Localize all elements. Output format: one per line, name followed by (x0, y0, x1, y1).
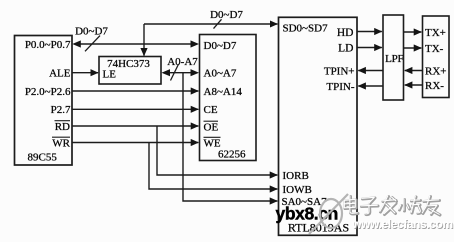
svg-text:TPIN+: TPIN+ (324, 66, 355, 78)
wire LPF to TX+ (404, 31, 421, 33)
ethernet controller U3 RTL8019AS (279, 17, 358, 235)
MCU 89C55 (15, 36, 73, 166)
bus slash on P0 data bus (85, 36, 100, 52)
svg-text:A0~A7: A0~A7 (204, 68, 237, 80)
wire RD branch to IORB (157, 126, 277, 175)
svg-text:RD: RD (55, 121, 70, 133)
svg-text:LD: LD (338, 43, 353, 55)
wire LD to LPF (357, 47, 382, 49)
svg-text:D0~D7: D0~D7 (204, 40, 237, 52)
svg-text:D0~D7: D0~D7 (210, 9, 243, 21)
wire P2.7 to CE (72, 108, 198, 110)
svg-text:LE: LE (103, 69, 117, 81)
wire WR to WE (72, 142, 198, 144)
wire WR branch to IOWB (149, 143, 277, 190)
filter LPF (383, 15, 404, 100)
svg-text:89C55: 89C55 (28, 152, 58, 164)
svg-text:IORB: IORB (283, 170, 309, 182)
wire RX- to LPF (405, 84, 423, 86)
svg-text:SD0~SD7: SD0~SD7 (283, 23, 329, 35)
wire data bus P0.0~P0.7 to D0~D7 of 62256 (bidirectional) (72, 40, 199, 47)
svg-text:www.elecfans.com: www.elecfans.com (351, 217, 453, 231)
svg-text:LPF: LPF (385, 53, 403, 65)
wire latched address A0~A7 latch to 62256 (bidirectional) (162, 69, 200, 76)
svg-text:A8~A14: A8~A14 (204, 86, 243, 98)
svg-text:P2.7: P2.7 (51, 104, 71, 116)
wire data bus to SD0~SD7 of RTL8019AS (144, 23, 277, 25)
bus slash on A0-A7 (171, 64, 179, 81)
svg-text:TX+: TX+ (425, 27, 446, 39)
connector block TX/RX (423, 16, 450, 98)
latch U2 74HC373 (99, 57, 161, 85)
SRAM 62256 (200, 35, 257, 161)
svg-text:RX-: RX- (425, 80, 444, 92)
svg-text:OE: OE (204, 121, 219, 133)
svg-text:IOWB: IOWB (283, 184, 312, 196)
svg-text:CE: CE (204, 104, 218, 116)
wire ALE to latch LE (72, 72, 98, 74)
svg-text:TPIN-: TPIN- (326, 81, 354, 93)
svg-text:WR: WR (52, 137, 70, 149)
wire LPF to TPIN+ (358, 70, 383, 72)
svg-text:P0.0~P0.7: P0.0~P0.7 (25, 39, 71, 51)
svg-text:RX+: RX+ (425, 65, 446, 77)
wire P2.0~P2.6 to A8~A14 (72, 90, 198, 92)
svg-text:D0~D7: D0~D7 (75, 25, 108, 37)
svg-text:P2.0~P2.6: P2.0~P2.6 (25, 86, 71, 98)
wire LPF to TPIN- (358, 85, 383, 87)
svg-text:TX-: TX- (425, 43, 444, 55)
wire RD to OE (72, 125, 198, 127)
wire A bus branch to SA0~SA7 (183, 73, 277, 201)
svg-text:A0-A7: A0-A7 (167, 56, 198, 68)
watermark logo ring (309, 194, 348, 234)
wire vertical drop from SD bus into latch input (143, 24, 145, 56)
wire HD to LPF (357, 31, 382, 33)
svg-text:ALE: ALE (49, 68, 71, 80)
svg-text:HD: HD (337, 27, 354, 39)
wire RX+ to LPF (405, 70, 423, 72)
bus slash on SD bus (214, 19, 222, 28)
wire LPF to TX- (404, 47, 421, 49)
svg-text:62256: 62256 (218, 149, 246, 161)
